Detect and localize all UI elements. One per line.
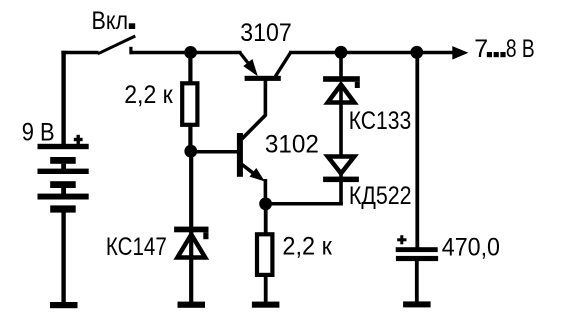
wire rail 3107 collector to output	[289, 51, 455, 55]
zener VD3 КС133 anode triangle	[328, 85, 355, 103]
wire top-left corner to switch	[61, 51, 98, 55]
ground bar КС147	[178, 302, 206, 308]
transistor VT1 3107 emitter	[240, 53, 258, 77]
svg-text:Вкл: Вкл	[92, 7, 129, 35]
output arrowhead	[452, 46, 468, 60]
svg-text:КС147: КС147	[106, 233, 167, 261]
svg-text:КД522: КД522	[349, 182, 412, 210]
capacitor C1 top plate	[396, 247, 438, 252]
wire node E to capacitor C1	[415, 52, 419, 248]
node E junction dot	[410, 46, 423, 59]
ground bar R2	[252, 302, 280, 308]
ground bar C1	[403, 301, 431, 307]
svg-text:9 В: 9 В	[22, 119, 55, 147]
switch SA1 right contact tick	[129, 47, 132, 54]
wire КС133 to КД522	[339, 84, 343, 156]
battery plus polarity mark	[74, 135, 83, 145]
diode VD4 КД522 anode triangle	[328, 157, 355, 174]
wire R1 to node B	[188, 126, 192, 152]
svg-text:8 В: 8 В	[506, 35, 535, 63]
capacitor C1 plus polarity mark	[397, 235, 406, 244]
transistor VT1 3107 base bar	[245, 76, 281, 81]
svg-text:470,0: 470,0	[442, 233, 500, 261]
battery GB1 positive lead wire	[61, 51, 65, 145]
capacitor C1 bottom plate	[396, 256, 438, 261]
wire node C to КД522 corner	[266, 202, 343, 206]
battery GB1 plates	[38, 144, 89, 213]
wire R2 to ground	[264, 276, 268, 303]
transistor VT2 3102 base bar	[237, 133, 243, 177]
node A junction dot	[184, 46, 197, 59]
svg-text:2,2 к: 2,2 к	[124, 81, 174, 109]
wire rail switch to 3107 emitter	[130, 51, 242, 55]
wire node C to R2	[264, 204, 268, 234]
wire node D to КС133	[339, 52, 343, 78]
label Вкл.	[92, 7, 136, 35]
battery negative lead wire	[61, 212, 65, 303]
zener VD3 КС133 cathode bar	[323, 76, 360, 82]
wire node B to 3102 base	[191, 150, 238, 154]
svg-text:3107: 3107	[240, 19, 291, 47]
node C junction dot	[259, 197, 272, 210]
svg-text:2,2 к: 2,2 к	[282, 233, 332, 261]
label 7...8 В	[474, 35, 535, 63]
svg-text:3102: 3102	[265, 131, 319, 159]
wire node A to R1	[188, 53, 192, 85]
wire КД522 down to node C level	[339, 171, 343, 206]
transistor VT2 3102 emitter	[242, 165, 265, 182]
switch SA1 blade	[98, 36, 136, 54]
zener VD2 КС147 cathode bar	[174, 227, 208, 233]
resistor R2 2,2 к	[257, 234, 272, 275]
wire 3102 collector to 3107 base	[242, 79, 265, 139]
node B junction dot	[184, 145, 197, 158]
diode VD4 КД522 cathode bar	[323, 177, 359, 183]
svg-text:КС133: КС133	[349, 107, 412, 135]
svg-text:7: 7	[474, 35, 488, 63]
zener VD2 КС147 hook	[203, 232, 208, 239]
resistor R1 2,2 к	[182, 83, 197, 125]
zener VD2 КС147 anode triangle	[177, 235, 205, 258]
node D junction dot	[335, 46, 348, 59]
wire node B down through КС147 to ground	[189, 151, 193, 303]
transistor VT1 3107 collector	[275, 53, 290, 77]
ground bar battery	[50, 302, 78, 308]
wire C1 to ground	[415, 260, 419, 303]
zener VD3 КС133 hook	[355, 82, 360, 88]
wire 3102 emitter to node C	[264, 179, 268, 205]
